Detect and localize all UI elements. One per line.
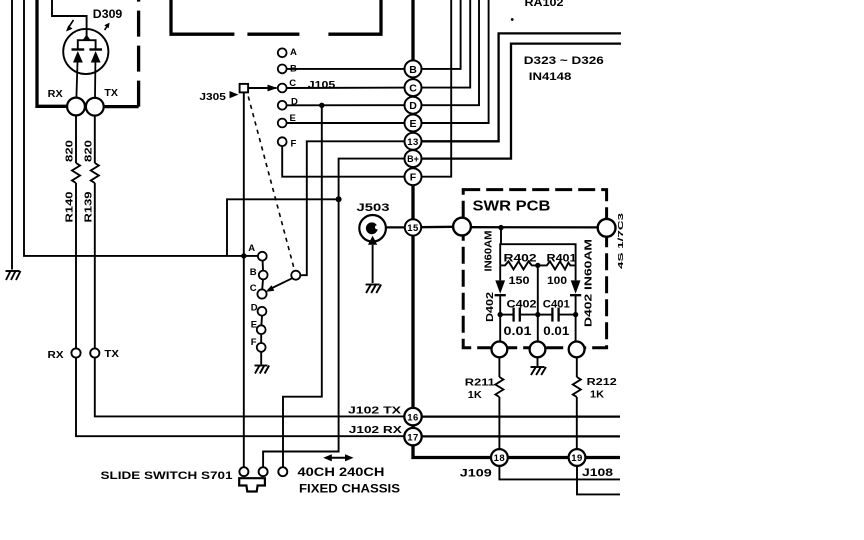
rotary contact D [258, 307, 267, 316]
speck [511, 18, 514, 21]
wire bus B exit up [414, 0, 461, 69]
slide switch contact 1 [239, 467, 248, 476]
rotary contact F [257, 343, 266, 352]
connector pin TX (lower) [90, 348, 99, 357]
connector J105 pin E [278, 119, 287, 128]
diode D309 right element [89, 50, 102, 98]
svg-text:SWR PCB: SWR PCB [473, 197, 551, 214]
slide switch actuator S701 [239, 478, 265, 491]
dashed border segment (top left) [137, 0, 140, 107]
diode D402 right [570, 265, 581, 341]
svg-text:D: D [409, 100, 417, 112]
svg-text:FIXED CHASSIS: FIXED CHASSIS [299, 484, 400, 496]
svg-text:40CH 240CH: 40CH 240CH [298, 467, 385, 479]
node 17 [404, 428, 421, 445]
diode D309 circle [63, 29, 108, 74]
resistor R211 [495, 377, 503, 397]
node D [405, 97, 422, 114]
svg-text:R211: R211 [465, 376, 495, 388]
svg-text:150: 150 [509, 275, 530, 287]
wire J305 drop to slide switch [243, 92, 245, 467]
svg-text:D309: D309 [93, 9, 123, 21]
svg-text:IN60AM: IN60AM [484, 231, 495, 272]
wire TX column lower [94, 183, 96, 348]
diode D402 left [495, 265, 506, 341]
wire bus F exit up [414, 0, 451, 177]
wire RX to J102 RX line [76, 358, 404, 437]
wire into D309 top [52, 0, 87, 40]
svg-text:15: 15 [407, 223, 419, 234]
wire node 19 exit [577, 466, 620, 495]
wire J503 to ground [372, 245, 374, 283]
connector J105 pin D [278, 101, 287, 110]
connector J503 [359, 215, 386, 242]
wire R212 column upper [576, 357, 578, 377]
connector pin RX (top) [67, 98, 85, 116]
connector pin TX (top) [86, 98, 104, 116]
junction cap row left [498, 312, 503, 317]
wire D to bus [287, 104, 412, 106]
node 15 [405, 219, 421, 235]
wire R211 column lower [498, 397, 500, 450]
wire J305 to J105-C [248, 87, 276, 89]
svg-text:18: 18 [494, 453, 506, 464]
node 16 [404, 408, 421, 425]
svg-text:C: C [250, 283, 257, 294]
SWR bottom node right [569, 342, 585, 358]
resistor R140 [72, 163, 80, 183]
wire C to bus [287, 87, 412, 89]
SWR bottom node middle [530, 342, 546, 358]
svg-text:16: 16 [407, 412, 419, 423]
wire thick TX right to dashed border [104, 105, 139, 108]
junction at B+ drop [336, 196, 342, 202]
wire left vertical 1 [11, 0, 13, 270]
dashed link J305 to wiper pivot [248, 97, 294, 271]
SWR right node [598, 219, 616, 237]
node F [405, 168, 422, 185]
rotary contact E [257, 325, 266, 334]
link A-B [262, 261, 264, 271]
svg-text:D323 ~ D326: D323 ~ D326 [524, 55, 604, 67]
wire bus 13 exit to right edge [414, 33, 621, 141]
link E-F [260, 334, 262, 343]
wire bus B+ exit to right edge [414, 44, 621, 159]
svg-text:820: 820 [82, 140, 94, 162]
svg-text:17: 17 [407, 432, 419, 443]
slide switch contact 3 [278, 467, 287, 476]
slide direction arrow [323, 454, 353, 461]
D309 leader arrow right [104, 23, 109, 30]
svg-text:0.01: 0.01 [543, 324, 569, 338]
svg-text:D402 IN60AM: D402 IN60AM [583, 239, 595, 327]
svg-text:0.01: 0.01 [504, 324, 532, 338]
ground (rotary F) [255, 366, 270, 374]
wire thick RX left [37, 0, 68, 106]
svg-text:TX: TX [104, 88, 118, 99]
arrow below J503 [368, 236, 377, 245]
node E [405, 115, 422, 132]
svg-text:J108: J108 [582, 467, 613, 479]
node B+ [405, 150, 422, 167]
connector J305 (square) [240, 84, 249, 93]
wire middle node to ground [537, 357, 539, 366]
connector J105 pin B [278, 65, 287, 74]
svg-text:13: 13 [407, 137, 419, 148]
wire RX column lower [75, 183, 77, 348]
svg-text:R139: R139 [82, 191, 94, 222]
wire left vertical 2 to node A feed [24, 0, 258, 256]
svg-text:E: E [251, 319, 257, 330]
SWR bottom node left [492, 342, 508, 358]
arrow into C [268, 85, 278, 92]
svg-text:100: 100 [547, 275, 567, 287]
wiper pivot [291, 271, 300, 280]
junction cap row right [573, 312, 578, 317]
connector J105 pin A [278, 48, 287, 57]
node C [405, 79, 422, 96]
ground (far left) [6, 271, 21, 280]
svg-text:R212: R212 [587, 376, 617, 388]
svg-text:J105: J105 [308, 79, 336, 91]
wire junction down to R-frame [500, 228, 502, 245]
SWR PCB box (dashed) [463, 190, 606, 348]
wire node 16 right [420, 415, 620, 417]
wire bus E exit up [414, 0, 489, 123]
connector pin RX (lower) [71, 348, 80, 357]
node B [405, 60, 422, 77]
svg-text:F: F [410, 172, 417, 184]
wire TX column upper [94, 116, 96, 163]
capacitor C402 [500, 308, 538, 322]
resistor R402 [500, 261, 538, 269]
rotary contact B [259, 271, 268, 280]
wire RX column upper [75, 115, 77, 163]
junction cap row center [535, 312, 540, 317]
connector J105 pin F [278, 137, 287, 146]
svg-text:RX: RX [48, 349, 64, 361]
link B-C [261, 279, 264, 289]
rotary contact C [257, 289, 266, 298]
wire node 18 exit [499, 466, 620, 480]
svg-text:B: B [250, 267, 257, 278]
wire J503 to node 15 [386, 226, 405, 228]
D309 leader arrow left [66, 20, 74, 32]
svg-text:19: 19 [571, 453, 583, 464]
node 13 [405, 133, 422, 150]
svg-text:J305: J305 [199, 91, 226, 103]
wire SWR main horizontal [471, 226, 598, 228]
svg-text:B: B [409, 64, 417, 76]
wire R211 column upper [498, 357, 500, 377]
link D-E [260, 316, 263, 326]
svg-text:820: 820 [64, 140, 76, 162]
svg-text:A: A [248, 243, 255, 254]
svg-text:C401: C401 [543, 298, 570, 310]
svg-text:J503: J503 [357, 202, 390, 214]
wire node 17 right [420, 435, 620, 437]
svg-text:TX: TX [104, 348, 119, 360]
resistor R212 [573, 377, 581, 397]
junction on D wire [319, 103, 324, 108]
svg-text:4S 1/7C3: 4S 1/7C3 [618, 213, 625, 269]
SWR left node [453, 218, 471, 236]
capacitor C401 [538, 308, 576, 322]
svg-text:C402: C402 [507, 298, 537, 310]
svg-text:F: F [291, 138, 297, 149]
svg-text:R140: R140 [64, 191, 76, 222]
svg-text:RX: RX [48, 89, 63, 100]
svg-text:R402: R402 [504, 252, 537, 264]
wire D-junction drop to slide switch [283, 105, 322, 467]
top module box (dashed thick) [169, 0, 382, 34]
svg-text:D402: D402 [484, 292, 496, 322]
wiper arm to contact C [268, 278, 292, 290]
D309 internal junction arrow [82, 35, 91, 41]
svg-text:A: A [290, 47, 297, 58]
bus vertical [411, 0, 414, 445]
resistor R139 [91, 163, 99, 183]
junction main wire [498, 225, 503, 230]
wire R212 column lower [576, 397, 578, 450]
wire bus C exit up [414, 0, 470, 88]
svg-text:1K: 1K [468, 389, 482, 401]
wire branch up to B+ drop junction [227, 199, 339, 256]
junction on A feed wire at J305 drop [241, 253, 246, 258]
svg-text:J109: J109 [460, 468, 492, 480]
node 18 [491, 449, 508, 466]
J305 leader arrow [230, 91, 239, 98]
junction resistor center [535, 263, 540, 268]
slide switch contact 2 [259, 467, 268, 476]
svg-text:J102 RX: J102 RX [349, 424, 402, 436]
svg-text:IN4148: IN4148 [529, 71, 572, 83]
svg-text:J102 TX: J102 TX [348, 404, 401, 416]
svg-text:C: C [409, 83, 417, 95]
wire bus elbow to node row [413, 444, 620, 458]
ground (SWR middle) [531, 367, 547, 375]
svg-text:SLIDE SWITCH S701: SLIDE SWITCH S701 [101, 470, 233, 482]
wire center column [537, 265, 539, 341]
wire F to ground [260, 352, 262, 365]
svg-text:B+: B+ [407, 154, 419, 164]
svg-text:RA102: RA102 [525, 0, 564, 9]
svg-text:D: D [251, 302, 258, 313]
wire bus D exit up [414, 0, 479, 105]
connector J105 pin C [278, 84, 287, 93]
wiper arrowhead [266, 285, 275, 292]
resistor R401 [538, 261, 576, 269]
D309 internal tie wire [78, 40, 96, 49]
svg-text:E: E [409, 118, 416, 130]
svg-text:F: F [251, 337, 257, 348]
wire E to bus [287, 122, 412, 124]
rotary contact A [258, 252, 267, 261]
wire bus 13 to wiper drop [300, 141, 412, 275]
wire R-frame top [500, 244, 575, 265]
wire F connector drop to bus F [282, 146, 412, 177]
diode D309 left element [72, 50, 85, 98]
wire node 15 to SWR left node [421, 226, 453, 229]
wire TX to J102 TX line [95, 358, 405, 417]
ground (J503) [366, 285, 382, 294]
node 19 [569, 449, 586, 466]
wire B to bus [287, 68, 412, 70]
svg-text:1K: 1K [590, 388, 604, 400]
wire bus B+ to drop [263, 159, 412, 468]
svg-text:R401: R401 [547, 252, 577, 264]
